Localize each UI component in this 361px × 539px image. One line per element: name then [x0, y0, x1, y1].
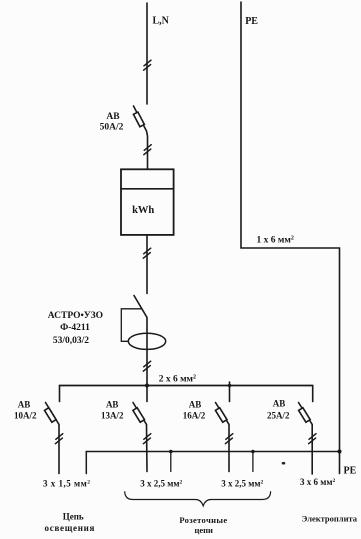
circuit breaker AB 16A/2 thermal element [215, 408, 227, 423]
junction: bus / breaker 3 [228, 384, 231, 387]
conductor-count mark between breaker and meter [144, 145, 151, 155]
conductor-count mark between RCD and bus [143, 361, 150, 371]
PE distribution bus [86, 452, 339, 474]
wire: L,N incoming supply [146, 3, 148, 104]
svg-text:Розеточные: Розеточные [179, 515, 227, 525]
svg-text:Ф-4211: Ф-4211 [60, 323, 90, 333]
svg-text:АВ: АВ [106, 400, 119, 410]
circuit breaker AB 50A/2 thermal element (rectangle) [133, 112, 144, 127]
wire: PE riser from supply [241, 2, 340, 474]
svg-text:25А/2: 25А/2 [267, 411, 290, 421]
svg-text:PE: PE [344, 466, 357, 477]
svg-text:L,N: L,N [153, 15, 170, 26]
RCD actuator linkage bracket [121, 309, 141, 342]
circuit breaker AB 10A/2 thermal element [45, 408, 57, 423]
circuit breaker AB 13A/2 thermal element [133, 408, 145, 423]
conductor-count mark (2 slashes) on supply wire [144, 60, 151, 70]
svg-text:3 х 2,5 мм2: 3 х 2,5 мм2 [140, 479, 182, 489]
svg-text:PE: PE [245, 16, 258, 27]
circuit breaker AB 10A/2 blade [46, 403, 60, 474]
svg-text:53/0,03/2: 53/0,03/2 [53, 336, 89, 346]
circuit breaker AB 25A/2 blade [299, 403, 313, 475]
svg-text:13А/2: 13А/2 [101, 411, 124, 421]
conductor-count mark on stove feeder [309, 434, 316, 444]
svg-text:АВ: АВ [273, 399, 286, 409]
wire: bus drop to breaker AB 25A/2 [312, 386, 314, 402]
wire: bus drop to breaker AB 10A/2 [59, 386, 61, 402]
wire: RCD to distribution bus [146, 333, 148, 386]
svg-text:освещения: освещения [45, 523, 95, 533]
svg-text:3 х 2,5 мм2: 3 х 2,5 мм2 [221, 479, 263, 489]
wire: PE drop to socket feeder 1 [170, 452, 172, 472]
kWh meter box [121, 169, 174, 235]
svg-text:АВ: АВ [189, 400, 202, 410]
svg-text:АСТРО•УЗО: АСТРО•УЗО [48, 311, 103, 321]
svg-text:Цепь: Цепь [63, 512, 84, 522]
svg-text:1 х 6 мм2: 1 х 6 мм2 [257, 235, 294, 245]
junction: PE riser / PE bus [337, 449, 341, 453]
svg-text:Электроплита: Электроплита [302, 513, 358, 523]
wire: bus drop to breaker AB 13A/2 [146, 386, 148, 402]
wire: PE drop to socket feeder 2 [252, 452, 254, 472]
node L,N (supply) [0, 0, 1, 1]
svg-text:АВ: АВ [106, 112, 120, 122]
conductor-count mark between meter and RCD [143, 248, 150, 258]
svg-text:10А/2: 10А/2 [14, 411, 37, 421]
wire: bus drop to breaker AB 16A/2 [229, 382, 231, 402]
conductor-count mark on socket feeder 1 [143, 434, 150, 444]
svg-text:АВ: АВ [18, 400, 31, 410]
svg-text:50А/2: 50А/2 [100, 122, 124, 132]
kWh meter terminal divider [121, 188, 174, 190]
svg-text:3 х 6 мм2: 3 х 6 мм2 [300, 477, 336, 487]
svg-text:цепи: цепи [194, 525, 213, 535]
distribution bus 2x6mm2 [60, 385, 313, 387]
brace: socket circuits group [125, 491, 271, 506]
svg-text:2 х 6 мм2: 2 х 6 мм2 [159, 375, 196, 385]
svg-text:kWh: kWh [132, 205, 154, 216]
RCD ASTRO-UZO switch blade [134, 296, 147, 334]
scan speck [282, 462, 286, 465]
circuit breaker AB 16A/2 blade [216, 403, 230, 472]
svg-text:3 х 1,5 мм2: 3 х 1,5 мм2 [43, 479, 91, 489]
junction: bus / incoming [145, 384, 149, 388]
junction: PE bus / socket drop 2 [251, 450, 255, 454]
svg-text:16А/2: 16А/2 [183, 411, 206, 421]
conductor-count mark on socket feeder 2 [225, 434, 232, 444]
junction: PE bus / socket drop 1 [169, 450, 173, 454]
circuit breaker AB 13A/2 blade [133, 403, 147, 472]
circuit breaker AB 25A/2 thermal element [299, 408, 311, 423]
conductor-count mark on lighting feeder [55, 434, 62, 444]
RCD differential transformer (ellipse) [128, 333, 165, 349]
wire: meter to RCD [146, 235, 148, 294]
circuit breaker AB 50A/2 blade [134, 106, 148, 169]
